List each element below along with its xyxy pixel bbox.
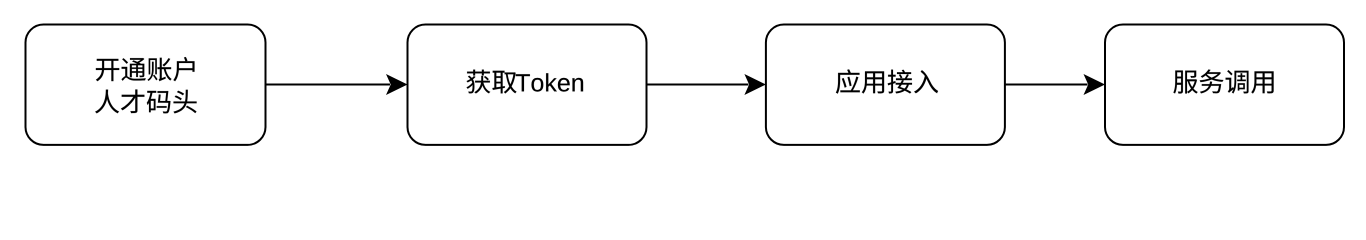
box 开通账户/人才码头 [26,25,266,145]
text 获取Token [467,70,584,94]
box 应用接入 [766,25,1005,145]
box 获取Token [408,25,647,145]
arrow 3 [1005,74,1105,95]
text 开通账户 [96,57,195,81]
arrow 1 [266,74,408,95]
box 服务调用 [1105,25,1344,145]
text 服务调用 [1173,70,1273,94]
arrow 2 [647,74,766,95]
text 应用接入 [836,69,938,93]
text 人才码头 [95,90,197,114]
